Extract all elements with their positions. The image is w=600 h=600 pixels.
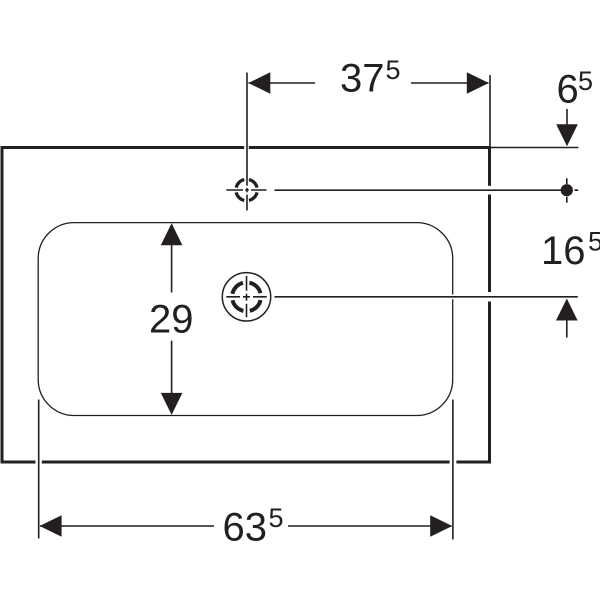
svg-text:37: 37 xyxy=(340,57,385,101)
svg-text:16: 16 xyxy=(541,229,586,273)
svg-text:5: 5 xyxy=(588,227,600,257)
svg-text:6: 6 xyxy=(557,68,579,112)
svg-text:5: 5 xyxy=(578,66,593,96)
svg-text:63: 63 xyxy=(223,506,268,550)
svg-text:5: 5 xyxy=(386,55,401,85)
svg-text:5: 5 xyxy=(269,503,284,533)
svg-text:29: 29 xyxy=(149,297,194,341)
